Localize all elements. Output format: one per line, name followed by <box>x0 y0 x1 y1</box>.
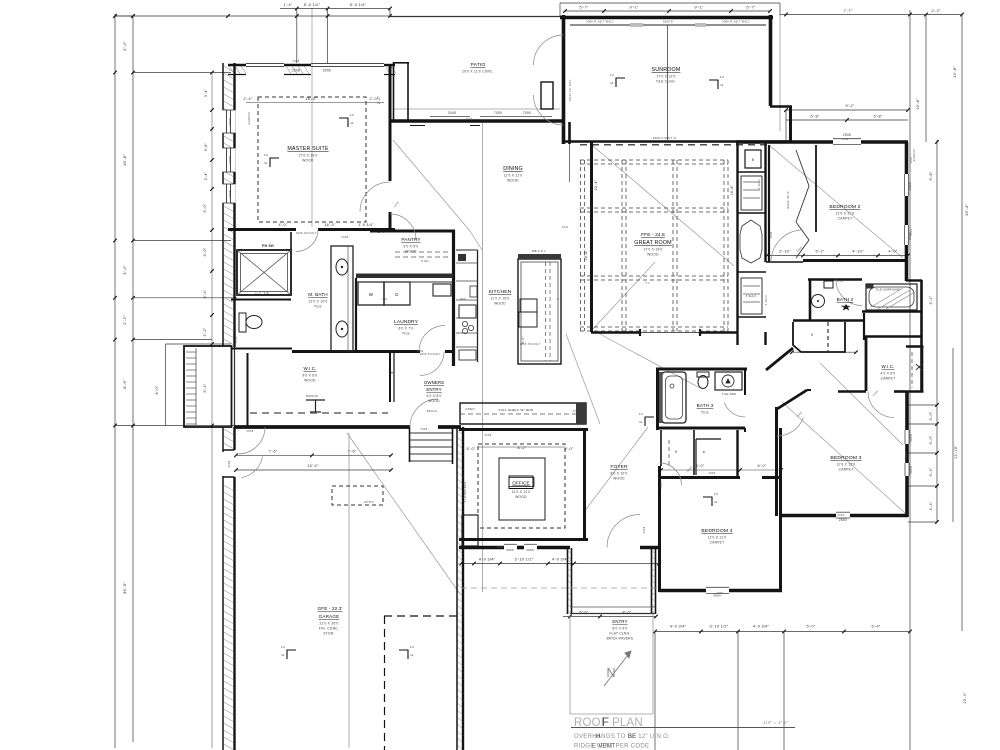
svg-text:6'0 X 5'0: 6'0 X 5'0 <box>404 245 419 249</box>
svg-text:13'-8": 13'-8" <box>952 66 957 78</box>
svg-text:9'0 X 6'0: 9'0 X 6'0 <box>303 374 318 378</box>
svg-text:W: W <box>369 292 374 297</box>
svg-text:15'-4": 15'-4" <box>964 204 969 216</box>
svg-text:WOOD: WOOD <box>515 495 527 499</box>
svg-text:11: 11 <box>714 500 718 504</box>
svg-text:6'-0": 6'-0" <box>757 464 766 468</box>
svg-text:2020: 2020 <box>908 182 912 190</box>
svg-text:11'0 X 11'0: 11'0 X 11'0 <box>504 174 523 178</box>
svg-text:13: 13 <box>714 492 718 496</box>
svg-text:REF: REF <box>460 297 466 301</box>
svg-text:U.C. T.B: U.C. T.B <box>255 292 269 296</box>
svg-text:4'-10": 4'-10" <box>852 250 864 254</box>
svg-text:8'-0": 8'-0" <box>155 385 159 394</box>
svg-text:3'-0": 3'-0" <box>929 435 933 444</box>
svg-text:EGRESS: EGRESS <box>247 112 251 125</box>
svg-text:3'-4": 3'-4" <box>122 265 127 275</box>
svg-text:11'0 X 16'0: 11'0 X 16'0 <box>491 297 510 301</box>
svg-text:WOOD: WOOD <box>647 253 659 257</box>
svg-text:BEDROOM 4: BEDROOM 4 <box>701 528 732 534</box>
svg-text:2008: 2008 <box>228 156 232 164</box>
svg-text:BENCH: BENCH <box>427 409 438 413</box>
svg-text:11'0 X 11'6: 11'0 X 11'6 <box>836 212 855 216</box>
svg-text:4'-0 3/4": 4'-0 3/4" <box>670 625 687 629</box>
svg-text:1'-4": 1'-4" <box>283 3 292 7</box>
svg-text:10'-8": 10'-8" <box>916 98 920 110</box>
svg-text:2868: 2868 <box>709 471 716 475</box>
svg-text:11: 11 <box>720 83 724 87</box>
svg-text:11: 11 <box>281 653 285 657</box>
svg-text:TILE: TILE <box>314 305 322 309</box>
svg-text:LIN: LIN <box>383 297 388 301</box>
svg-text:WOOD: WOOD <box>304 379 316 383</box>
svg-text:ENTRY: ENTRY <box>612 619 627 624</box>
svg-text:3056: 3056 <box>506 548 514 552</box>
svg-text:3'-10 1/2": 3'-10 1/2" <box>709 625 728 629</box>
svg-text:MIRROR: MIRROR <box>306 395 318 398</box>
svg-text:1'-9 3/4": 1'-9 3/4" <box>358 223 374 227</box>
svg-text:12'0 X 10'0: 12'0 X 10'0 <box>308 300 327 304</box>
svg-text:11: 11 <box>639 420 643 424</box>
svg-text:8'-2": 8'-2" <box>517 446 526 450</box>
svg-text:B.P.: B.P. <box>557 297 563 301</box>
svg-text:3'-4": 3'-4" <box>204 88 208 97</box>
svg-text:T&G CLNG.: T&G CLNG. <box>656 80 676 84</box>
svg-text:10'-4": 10'-4" <box>963 692 967 704</box>
svg-text:DINING: DINING <box>503 166 523 172</box>
svg-text:17'0 X 16'0: 17'0 X 16'0 <box>298 154 317 158</box>
svg-text:19'0 X 11'0 CONC.: 19'0 X 11'0 CONC. <box>462 70 494 74</box>
svg-text:2'-4": 2'-4" <box>204 171 208 180</box>
svg-text:2'-4": 2'-4" <box>243 97 252 101</box>
svg-text:17'0 X 12'0: 17'0 X 12'0 <box>656 75 675 79</box>
svg-text:SGD: SGD <box>562 225 569 229</box>
svg-text:5'-7": 5'-7" <box>579 6 588 10</box>
svg-text:WB F K L: WB F K L <box>532 249 547 253</box>
svg-text:3'-0": 3'-0" <box>203 247 207 256</box>
svg-text:5'-8": 5'-8" <box>810 115 819 119</box>
svg-text:4'-0 3/4": 4'-0 3/4" <box>552 558 569 562</box>
svg-text:TILE SURROUND: TILE SURROUND <box>875 288 900 292</box>
svg-text:TILE: TILE <box>402 332 410 336</box>
svg-text:5 SH: 5 SH <box>421 259 428 263</box>
svg-text:H: H <box>675 450 678 454</box>
svg-text:2508: 2508 <box>292 69 300 73</box>
svg-text:M. BATH: M. BATH <box>308 292 327 297</box>
svg-text:2'-10": 2'-10" <box>779 250 791 254</box>
svg-text:3'-4": 3'-4" <box>203 289 207 298</box>
svg-text:7050: 7050 <box>523 111 531 115</box>
svg-text:3080 R 1/8 T WALL: 3080 R 1/8 T WALL <box>586 20 614 24</box>
svg-text:CARPET: CARPET <box>881 377 896 381</box>
svg-text:PATIO: PATIO <box>471 62 486 68</box>
svg-text:6'0 X 8'0: 6'0 X 8'0 <box>427 394 442 398</box>
svg-text:4'-0 3/4": 4'-0 3/4" <box>753 625 770 629</box>
svg-text:36'-0": 36'-0" <box>122 582 127 594</box>
svg-text:11: 11 <box>410 653 414 657</box>
svg-text:3068: 3068 <box>342 235 349 239</box>
svg-text:TILE: TILE <box>841 305 849 309</box>
svg-text:16'-4": 16'-4" <box>305 97 317 101</box>
svg-text:3068: 3068 <box>227 460 231 467</box>
svg-text:N: N <box>606 666 615 680</box>
svg-text:B: B <box>703 450 705 454</box>
svg-text:T.V.: T.V. <box>645 281 650 285</box>
svg-text:T+H ACCESS: T+H ACCESS <box>463 482 467 503</box>
svg-text:OFFICE: OFFICE <box>512 481 529 486</box>
svg-text:3068: 3068 <box>642 526 646 533</box>
svg-text:TILE: TILE <box>701 411 709 415</box>
svg-text:WOOD: WOOD <box>494 302 506 306</box>
svg-text:2'-2": 2'-2" <box>122 315 127 325</box>
svg-text:FULL SHELF W/ ROD: FULL SHELF W/ ROD <box>499 408 534 412</box>
svg-text:5'-8": 5'-8" <box>204 142 208 151</box>
svg-text:11'6 X 12'0: 11'6 X 12'0 <box>837 463 856 467</box>
svg-text:8'-6": 8'-6" <box>122 379 127 389</box>
svg-text:5 SHLV: 5 SHLV <box>757 179 761 190</box>
svg-text:WOOD: WOOD <box>507 179 519 183</box>
svg-text:BEDROOM 2: BEDROOM 2 <box>829 204 860 210</box>
svg-text:SUNROOM: SUNROOM <box>652 67 681 73</box>
svg-text:H: H <box>596 734 601 740</box>
svg-text:W.I.C.: W.I.C. <box>303 366 316 371</box>
svg-text:TILE MED: TILE MED <box>722 392 736 396</box>
svg-text:GFE - 22.3': GFE - 22.3' <box>318 606 343 611</box>
svg-text:2'-0": 2'-0" <box>369 97 378 101</box>
svg-text:2668: 2668 <box>417 349 424 353</box>
svg-text:13: 13 <box>610 73 614 77</box>
svg-text:H: H <box>811 333 814 337</box>
svg-text:WOOD: WOOD <box>428 399 440 403</box>
svg-text:3045: 3045 <box>466 117 473 121</box>
svg-text:11: 11 <box>264 161 268 165</box>
svg-text:2008: 2008 <box>228 190 232 198</box>
svg-text:3056: 3056 <box>526 548 534 552</box>
svg-text:5'-4": 5'-4" <box>871 625 880 629</box>
svg-text:2'-2": 2'-2" <box>203 327 207 336</box>
svg-text:8'0 X 10'0: 8'0 X 10'0 <box>611 472 628 476</box>
svg-text:3'-4": 3'-4" <box>929 467 933 476</box>
svg-text:BATH 3: BATH 3 <box>697 403 714 408</box>
svg-text:1505 X 508 T.O.: 1505 X 508 T.O. <box>653 136 678 140</box>
svg-text:2020: 2020 <box>909 156 913 163</box>
svg-text:17'0 X 19'0: 17'0 X 19'0 <box>643 248 662 252</box>
svg-text:5'-0": 5'-0" <box>203 203 207 212</box>
svg-text:D: D <box>395 292 399 297</box>
svg-text:SHLV. W/ R: SHLV. W/ R <box>786 191 790 209</box>
svg-text:16040 FR. DRS.: 16040 FR. DRS. <box>568 78 572 101</box>
svg-text:3080 R: 3080 R <box>663 20 673 24</box>
svg-text:2650: 2650 <box>838 513 845 517</box>
svg-text:5'-7": 5'-7" <box>746 6 755 10</box>
svg-text:5'-0 1/4": 5'-0 1/4" <box>350 3 367 7</box>
svg-text:3068: 3068 <box>485 433 492 437</box>
svg-text:6055: 6055 <box>323 69 331 73</box>
svg-text:3050: 3050 <box>909 466 913 474</box>
svg-text:4'0 X 6'0: 4'0 X 6'0 <box>881 372 896 376</box>
svg-text:11: 11 <box>350 121 354 125</box>
svg-text:21'0 X 30'0: 21'0 X 30'0 <box>319 622 338 626</box>
svg-text:2008: 2008 <box>234 336 238 343</box>
svg-text:3'-4": 3'-4" <box>929 501 933 510</box>
svg-text:15'-0": 15'-0" <box>307 464 319 468</box>
svg-text:KITCHEN: KITCHEN <box>489 289 512 295</box>
svg-text:22'-4": 22'-4" <box>594 179 598 190</box>
svg-text:2868: 2868 <box>247 429 254 433</box>
svg-text:P.L: P.L <box>573 409 578 413</box>
svg-text:2850: 2850 <box>717 591 724 595</box>
svg-text:3050: 3050 <box>904 451 908 458</box>
svg-text:11'0 X 11'0: 11'0 X 11'0 <box>708 536 727 540</box>
svg-text:ATTIC: ATTIC <box>364 500 374 504</box>
svg-text:3'-2": 3'-2" <box>929 295 933 304</box>
svg-text:13: 13 <box>410 645 414 649</box>
svg-text:OPEN: OPEN <box>465 407 475 411</box>
svg-text:7508: 7508 <box>842 137 849 141</box>
svg-text:BEDROOM 3: BEDROOM 3 <box>830 455 861 461</box>
svg-text:12'-10": 12'-10" <box>954 445 958 459</box>
svg-text:7050: 7050 <box>494 111 502 115</box>
svg-text:13: 13 <box>639 412 643 416</box>
svg-text:13: 13 <box>720 75 724 79</box>
svg-text:11: 11 <box>610 81 614 85</box>
svg-text:7'-7": 7'-7" <box>843 9 852 13</box>
svg-text:FN SH: FN SH <box>262 244 274 248</box>
svg-text:CARPET: CARPET <box>838 217 853 221</box>
svg-text:4'-0 3/4": 4'-0 3/4" <box>479 558 496 562</box>
svg-text:ENTRY: ENTRY <box>426 387 441 392</box>
svg-text:BATH 2: BATH 2 <box>837 297 854 302</box>
svg-text:H: H <box>391 371 394 375</box>
svg-text:LAUNDRY: LAUNDRY <box>394 319 419 325</box>
svg-text:11'0 X 11'0: 11'0 X 11'0 <box>512 490 531 494</box>
svg-text:2650: 2650 <box>839 518 847 522</box>
svg-text:2668: 2668 <box>769 231 773 238</box>
svg-text:2668: 2668 <box>659 481 663 488</box>
svg-text:B: B <box>752 158 754 162</box>
svg-text:2868: 2868 <box>421 427 428 431</box>
svg-text:16'-0": 16'-0" <box>324 223 336 227</box>
svg-text:2508: 2508 <box>843 133 851 137</box>
svg-text:2008: 2008 <box>228 118 232 126</box>
svg-text:5'-8": 5'-8" <box>873 115 882 119</box>
svg-text:5'-8": 5'-8" <box>929 171 933 180</box>
svg-text:BRICK PAVERS: BRICK PAVERS <box>607 637 634 641</box>
svg-text:1/4" = 1'-0": 1/4" = 1'-0" <box>763 720 789 725</box>
svg-text:FOYER: FOYER <box>610 464 628 470</box>
svg-text:GARAGE: GARAGE <box>319 614 340 619</box>
svg-text:5'-2": 5'-2" <box>815 250 824 254</box>
svg-text:7'-6": 7'-6" <box>347 449 356 453</box>
svg-text:4'-0": 4'-0" <box>888 250 897 254</box>
svg-text:2868 POCKET: 2868 POCKET <box>296 231 317 235</box>
svg-text:2868 POCKET: 2868 POCKET <box>520 342 541 346</box>
svg-text:STOR.: STOR. <box>323 632 334 636</box>
svg-text:4'-0": 4'-0" <box>278 223 287 227</box>
svg-text:5'-0": 5'-0" <box>806 625 815 629</box>
svg-text:5'-0": 5'-0" <box>564 447 573 451</box>
svg-text:WOOD: WOOD <box>613 477 625 481</box>
svg-text:2020: 2020 <box>909 228 913 235</box>
svg-text:FFE - 24.8: FFE - 24.8 <box>641 232 665 238</box>
svg-text:7'-6": 7'-6" <box>268 449 277 453</box>
svg-text:2468: 2468 <box>837 279 844 283</box>
svg-text:E VENT: E VENT <box>592 744 616 750</box>
svg-text:3056: 3056 <box>497 545 504 549</box>
svg-text:3'-10 1/2": 3'-10 1/2" <box>514 558 533 562</box>
svg-text:GREAT ROOM: GREAT ROOM <box>634 240 671 246</box>
svg-text:5'-4": 5'-4" <box>122 41 127 51</box>
svg-text:WOOD: WOOD <box>405 250 417 254</box>
svg-text:OVERHANGS TO BE 12" U.N.O.: OVERHANGS TO BE 12" U.N.O. <box>574 734 670 740</box>
svg-text:MASTER SUITE: MASTER SUITE <box>287 146 328 152</box>
svg-text:CARPET: CARPET <box>839 468 854 472</box>
svg-text:CARPET: CARPET <box>710 541 725 545</box>
svg-text:5'-0 1/2": 5'-0 1/2" <box>304 3 321 7</box>
svg-text:13: 13 <box>281 645 285 649</box>
svg-text:16'-8": 16'-8" <box>122 154 127 166</box>
svg-text:FLAT CLNG.: FLAT CLNG. <box>609 632 630 636</box>
svg-text:3080 R 1/8 T WALL: 3080 R 1/8 T WALL <box>722 20 750 24</box>
svg-text:FIN. CONC.: FIN. CONC. <box>319 627 339 631</box>
svg-text:8'-0": 8'-0" <box>695 464 704 468</box>
svg-text:13: 13 <box>350 113 354 117</box>
svg-text:16'-6": 16'-6" <box>730 184 734 195</box>
svg-text:BE: BE <box>628 734 637 740</box>
svg-text:6'0 X 7'0: 6'0 X 7'0 <box>399 327 414 331</box>
svg-text:5'-4": 5'-4" <box>203 383 207 392</box>
svg-text:PANTRY: PANTRY <box>401 237 420 242</box>
svg-text:3050: 3050 <box>909 434 913 442</box>
svg-text:9'-1": 9'-1" <box>629 6 638 10</box>
svg-text:8'0 X 6'0: 8'0 X 6'0 <box>613 627 628 631</box>
svg-text:9'-2": 9'-2" <box>845 104 854 108</box>
svg-text:5 SHLV: 5 SHLV <box>746 294 757 298</box>
svg-text:OWNERS: OWNERS <box>424 380 444 385</box>
svg-text:2508: 2508 <box>293 59 300 63</box>
svg-text:W.I.C.: W.I.C. <box>881 364 894 369</box>
svg-text:5'-0": 5'-0" <box>466 447 475 451</box>
svg-text:WOOD: WOOD <box>302 159 314 163</box>
svg-text:3045: 3045 <box>448 111 456 115</box>
svg-text:2'-2": 2'-2" <box>931 9 940 13</box>
svg-text:13: 13 <box>264 153 268 157</box>
svg-text:5 SHLV: 5 SHLV <box>764 295 768 306</box>
svg-text:3'-0": 3'-0" <box>929 411 933 420</box>
svg-text:9'-1": 9'-1" <box>694 6 703 10</box>
